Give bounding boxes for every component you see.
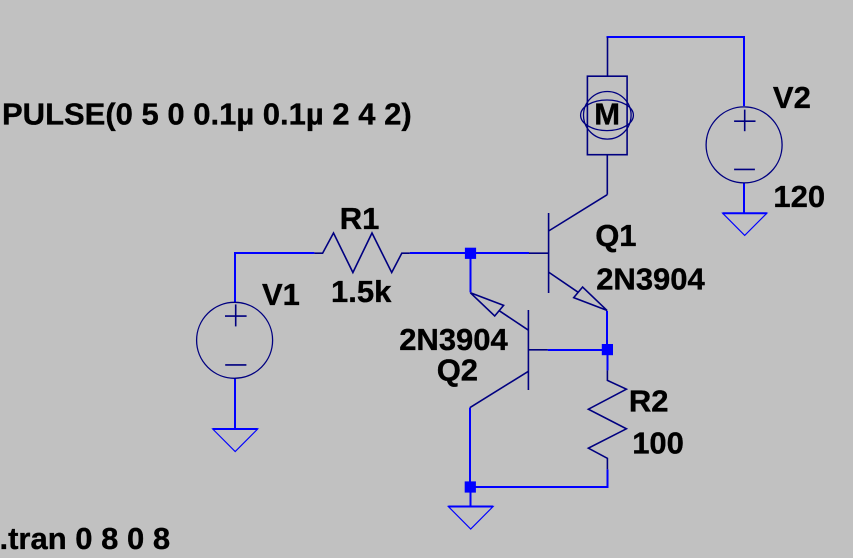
svg-text:R2: R2	[629, 384, 669, 419]
svg-text:R1: R1	[340, 201, 380, 236]
svg-text:1.5k: 1.5k	[331, 274, 392, 309]
svg-text:Q1: Q1	[595, 218, 636, 253]
svg-text:2N3904: 2N3904	[596, 262, 705, 297]
svg-text:120: 120	[773, 179, 825, 214]
svg-text:.tran 0 8 0 8: .tran 0 8 0 8	[0, 521, 170, 556]
svg-text:100: 100	[632, 426, 684, 461]
svg-text:V1: V1	[262, 277, 300, 312]
svg-text:Q2: Q2	[437, 353, 478, 388]
svg-text:PULSE(0 5 0 0.1µ 0.1µ 2 4 2): PULSE(0 5 0 0.1µ 0.1µ 2 4 2)	[2, 96, 412, 131]
svg-text:M: M	[594, 97, 620, 132]
svg-text:V2: V2	[773, 80, 811, 115]
